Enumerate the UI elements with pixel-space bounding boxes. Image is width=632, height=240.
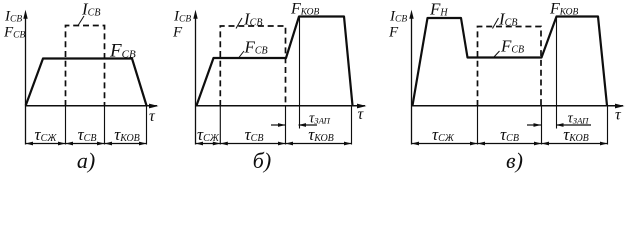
svg-text:τ: τ [149, 108, 156, 125]
svg-text:IСВ: IСВ [389, 9, 407, 25]
svg-text:τСВ: τСВ [78, 125, 97, 144]
x-axis panel b [196, 105, 366, 107]
leader line for Icb label panel b [236, 18, 242, 29]
dimension arrows panel b [196, 142, 352, 146]
y-axis panel b [195, 17, 197, 145]
force curve panel v [413, 17, 608, 106]
svg-text:FКОВ: FКОВ [290, 1, 320, 18]
svg-text:FСВ: FСВ [3, 25, 26, 41]
svg-text:а): а) [77, 148, 95, 173]
y-axis arrowhead panel b [193, 10, 197, 19]
svg-text:FСВ: FСВ [500, 37, 524, 56]
svg-text:τСЖ: τСЖ [35, 125, 58, 144]
svg-text:IСВ: IСВ [173, 9, 191, 25]
leader line for Fcb label panel v [494, 51, 500, 58]
tau-zap arrows panel b [278, 123, 306, 127]
tau-zap dimension panel b [271, 124, 317, 126]
force curve panel b [197, 17, 353, 106]
dashed current pulse Icb panel a [66, 26, 105, 107]
leader line for Icb label panel v [493, 18, 499, 29]
svg-text:FКОВ: FКОВ [549, 1, 579, 18]
svg-text:FСВ: FСВ [109, 41, 136, 62]
svg-text:FН: FН [429, 0, 448, 19]
dimension line panel b [196, 143, 352, 145]
y-axis arrowhead panel a [23, 10, 27, 19]
svg-text:IСВ: IСВ [498, 10, 517, 29]
force curve panel a [26, 59, 147, 106]
leader line for Fcb label panel b [239, 51, 245, 58]
svg-text:τ: τ [358, 106, 365, 123]
extension lines panel v [478, 106, 608, 145]
svg-text:IСВ: IСВ [243, 10, 262, 29]
x-axis arrowhead panel v [615, 104, 625, 109]
dimension line panel v [412, 143, 608, 145]
extension lines panel a [66, 106, 147, 145]
dimension arrows panel v [412, 142, 608, 146]
svg-text:IСВ: IСВ [4, 9, 22, 25]
svg-text:FСВ: FСВ [244, 38, 268, 57]
tau-zap arrows panel v [534, 123, 564, 127]
svg-text:IСВ: IСВ [81, 0, 100, 19]
dashed current pulse Icb panel v [478, 27, 542, 107]
y-axis arrowhead panel v [409, 10, 413, 19]
svg-text:τ: τ [615, 107, 622, 124]
svg-text:τЗАП: τЗАП [568, 111, 590, 127]
extension line under peak panel v [556, 17, 558, 129]
x-axis arrowhead panel b [357, 104, 367, 109]
svg-text:F: F [388, 25, 399, 41]
y-axis panel a [25, 17, 27, 145]
extension line under peak panel b [299, 17, 301, 129]
svg-text:б): б) [253, 148, 271, 173]
svg-text:τСВ: τСВ [245, 125, 264, 144]
svg-text:τСЖ: τСЖ [432, 125, 455, 144]
svg-text:τКОВ: τКОВ [308, 125, 334, 144]
svg-text:F: F [172, 25, 183, 41]
x-axis arrowhead panel a [149, 104, 159, 109]
dimension line panel a [26, 143, 147, 145]
leader line for Icb label panel a [78, 16, 84, 26]
tau-zap dimension panel v [527, 124, 591, 126]
svg-text:в): в) [506, 148, 523, 173]
extension lines panel b [220, 106, 351, 145]
svg-text:τСВ: τСВ [500, 125, 519, 144]
svg-text:τСЖ: τСЖ [197, 125, 220, 144]
svg-text:τКОВ: τКОВ [114, 125, 140, 144]
dashed current pulse Icb panel b [220, 26, 285, 106]
y-axis panel v [411, 17, 413, 145]
x-axis panel a [25, 105, 157, 107]
x-axis panel v [412, 105, 624, 107]
dimension arrows panel a [26, 142, 147, 146]
svg-text:τКОВ: τКОВ [563, 125, 589, 144]
